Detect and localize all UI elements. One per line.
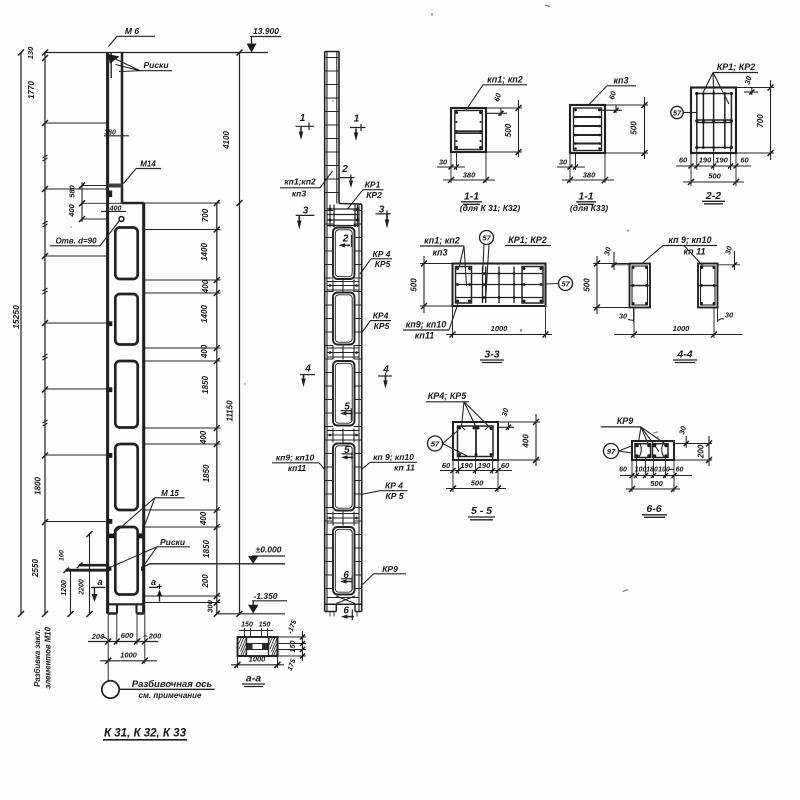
- scan specks: [70, 5, 659, 593]
- svg-text:1770: 1770: [27, 81, 36, 99]
- riska marks bottom: [108, 566, 145, 570]
- svg-text:190: 190: [699, 156, 712, 165]
- svg-text:57: 57: [482, 234, 491, 243]
- svg-text:-1.350: -1.350: [253, 591, 277, 601]
- svg-text:КР1; КР2: КР1; КР2: [508, 235, 547, 245]
- dim 1200: [61, 570, 74, 617]
- svg-text:кп 9; кп10: кп 9; кп10: [668, 235, 711, 245]
- embeds M15: [108, 533, 145, 538]
- base zone and notch: [325, 596, 362, 617]
- svg-text:КР 4: КР 4: [373, 249, 391, 259]
- svg-text:500: 500: [471, 479, 484, 488]
- svg-text:11150: 11150: [226, 400, 235, 422]
- svg-text:(для К 31; К32): (для К 31; К32): [460, 203, 521, 213]
- svg-text:400: 400: [199, 430, 208, 445]
- label kp9 kp10 kp11 left: [272, 453, 326, 474]
- dim 700 section 2-2: [736, 80, 774, 160]
- svg-text:±0.000: ±0.000: [256, 545, 282, 555]
- dim 400 console: [101, 205, 126, 212]
- section a-a outline: [238, 637, 278, 657]
- svg-text:1: 1: [354, 114, 360, 125]
- svg-text:500: 500: [410, 278, 419, 292]
- svg-text:60: 60: [679, 156, 688, 165]
- svg-text:500: 500: [504, 123, 513, 137]
- svg-text:см. примечание: см. примечание: [139, 691, 202, 700]
- web zone 3: [327, 429, 359, 443]
- svg-text:4: 4: [304, 364, 311, 375]
- svg-text:кп1;кп2: кп1;кп2: [284, 177, 316, 187]
- svg-text:380: 380: [463, 171, 476, 180]
- svg-text:400: 400: [201, 279, 210, 294]
- label kp9 kp10 kp11 for 4-4: [642, 235, 717, 266]
- svg-text:1850: 1850: [202, 464, 211, 482]
- svg-text:30: 30: [725, 311, 734, 320]
- svg-text:60: 60: [607, 89, 618, 100]
- svg-text:30: 30: [677, 424, 688, 435]
- base extension lines: [108, 614, 145, 682]
- label kp9 kp10 kp11 right: [361, 452, 417, 473]
- svg-text:кп9; кп10: кп9; кп10: [406, 320, 447, 330]
- dim 380 on shaft: [104, 130, 129, 137]
- svg-text:500: 500: [650, 479, 663, 488]
- section mark a left: [91, 577, 106, 602]
- svg-text:1: 1: [300, 113, 306, 124]
- svg-text:4100: 4100: [222, 131, 231, 150]
- title 6-6: [642, 503, 667, 517]
- svg-text:500: 500: [630, 121, 639, 135]
- svg-text:57: 57: [673, 109, 682, 118]
- svg-text:Разбивочная ось: Разбивочная ось: [132, 679, 213, 690]
- dim 200 section 6-6: [674, 436, 712, 466]
- svg-text:200: 200: [148, 632, 162, 641]
- shaft ladder rungs: [325, 58, 339, 193]
- opening O4: [115, 444, 137, 510]
- svg-text:97: 97: [607, 447, 616, 456]
- section mark 1 right: [350, 114, 366, 142]
- label Riski top: [113, 58, 173, 72]
- opening O1: [115, 228, 137, 280]
- dims 580 400 left of shaft: [67, 182, 122, 222]
- dim 500 section 4-4: [583, 256, 630, 314]
- svg-text:400: 400: [200, 344, 209, 359]
- label Riski bottom: [112, 537, 191, 567]
- svg-text:200: 200: [697, 444, 706, 459]
- svg-text:100: 100: [635, 467, 647, 474]
- svg-text:КР9: КР9: [617, 416, 634, 426]
- axis circle: [102, 681, 215, 698]
- section mark 5 lower: [341, 445, 353, 460]
- label KR1 KR2 for 2-2: [703, 62, 758, 104]
- svg-text:6: 6: [343, 605, 349, 616]
- section 6-6 outline: [632, 441, 674, 460]
- svg-text:1000: 1000: [249, 655, 267, 664]
- section 3-3 outline: [453, 264, 546, 307]
- dim 30 section 6-6: [674, 424, 712, 448]
- level mark 13.900: [247, 26, 282, 53]
- svg-text:500: 500: [708, 172, 721, 181]
- dims 30 380 section 1-1: [437, 152, 495, 183]
- dims 60 100 180 100 60 section 6-6: [619, 458, 692, 493]
- title 5-5: [468, 505, 495, 520]
- svg-text:КР4: КР4: [373, 311, 389, 321]
- section mark 4 right: [378, 365, 392, 389]
- poz circle 57 right for 3-3: [546, 277, 573, 291]
- axis note text: [132, 679, 213, 700]
- label M14: [124, 160, 162, 184]
- svg-text:13.900: 13.900: [253, 26, 279, 36]
- label KR9 for 6-6: [601, 416, 666, 452]
- label kp1 kp2 kp3 left: [280, 171, 333, 199]
- label KR1 KR2 for 3-3: [505, 235, 551, 246]
- svg-text:200: 200: [91, 632, 105, 641]
- svg-text:кп3: кп3: [292, 189, 307, 199]
- right chord stirrup ticks: [354, 211, 362, 589]
- svg-text:Риски: Риски: [160, 537, 186, 547]
- svg-text:М 15: М 15: [161, 489, 179, 498]
- poz circle 57 for 2-2: [671, 106, 697, 118]
- svg-text:кп1; кп2: кп1; кп2: [424, 236, 460, 246]
- svg-text:30: 30: [500, 406, 511, 417]
- storey level lines: [45, 123, 108, 522]
- svg-text:КР1: КР1: [365, 180, 381, 190]
- svg-text:190: 190: [715, 156, 728, 165]
- section 1-1 K31 K32 outline: [451, 108, 486, 152]
- svg-text:180: 180: [646, 467, 658, 474]
- svg-text:а: а: [151, 577, 156, 588]
- label KR4 KR5 second: [362, 311, 392, 334]
- dim 500 section 2-2: [683, 172, 744, 186]
- svg-text:190: 190: [460, 461, 473, 470]
- svg-text:К 31, К 32, К 33: К 31, К 32, К 33: [104, 728, 187, 740]
- svg-text:кп3: кп3: [432, 248, 447, 258]
- svg-text:4-4: 4-4: [676, 349, 692, 361]
- svg-text:60: 60: [492, 91, 503, 102]
- poz circle 57 top for 3-3: [480, 231, 494, 296]
- svg-text:М 6: М 6: [125, 26, 139, 36]
- svg-text:2550: 2550: [31, 559, 40, 578]
- svg-text:700: 700: [756, 114, 765, 128]
- dim 60 section 1-1: [486, 91, 507, 116]
- svg-text:30: 30: [559, 158, 568, 167]
- web zone 4: [327, 512, 359, 526]
- svg-text:130: 130: [26, 46, 35, 59]
- svg-text:1-1: 1-1: [578, 191, 593, 203]
- svg-text:Отв. d=90: Отв. d=90: [55, 237, 97, 246]
- title 1-1 dlya K33: [570, 191, 608, 214]
- svg-text:кп1; кп2: кп1; кп2: [487, 75, 523, 85]
- dim 500 section 3-3: [410, 256, 453, 313]
- svg-text:30: 30: [439, 158, 448, 167]
- label kp1 kp2 for 1-1: [466, 75, 527, 111]
- level line -1.350: [217, 591, 287, 614]
- poz circle 57 for 5-5: [428, 431, 469, 457]
- dim 400 section 5-5: [498, 414, 540, 466]
- hole Otv d90: [50, 217, 124, 246]
- svg-text:кп3: кп3: [613, 76, 628, 86]
- dim 30 section 5-5: [497, 406, 514, 430]
- dimension line 4100 11150: [222, 50, 243, 617]
- dim 1000 section a-a: [231, 655, 284, 669]
- svg-text:600: 600: [121, 631, 134, 640]
- opening O5: [115, 527, 137, 595]
- embed M14: [108, 184, 123, 198]
- svg-text:кп 9; кп10: кп 9; кп10: [373, 452, 414, 462]
- svg-text:3-3: 3-3: [484, 349, 499, 361]
- svg-text:КР4; КР5: КР4; КР5: [428, 391, 468, 401]
- svg-text:1000: 1000: [120, 651, 138, 660]
- svg-text:КР5: КР5: [375, 259, 391, 269]
- section 4-4 right cage: [698, 264, 718, 308]
- svg-text:КР9: КР9: [382, 564, 398, 574]
- svg-text:кп11: кп11: [415, 331, 434, 341]
- svg-text:300: 300: [206, 599, 215, 612]
- level line +-0.000: [144, 545, 285, 567]
- section mark 6 lower: [341, 605, 354, 620]
- section mark 1 left: [296, 113, 315, 140]
- svg-text:1000: 1000: [491, 324, 509, 333]
- svg-text:КР 5: КР 5: [386, 491, 404, 501]
- svg-text:200: 200: [201, 574, 210, 589]
- title 3-3: [480, 349, 504, 363]
- top datum line: [44, 52, 268, 54]
- svg-text:КР 4: КР 4: [385, 481, 403, 491]
- top dims 30 section 4-4: [602, 244, 740, 270]
- dim 500 section 1-1: [486, 100, 522, 157]
- svg-text:кп9; кп10: кп9; кп10: [276, 453, 315, 463]
- svg-text:а: а: [97, 577, 102, 588]
- reinforcement column shaft edges: [325, 52, 362, 612]
- svg-text:150: 150: [259, 622, 271, 629]
- svg-text:1200: 1200: [61, 580, 68, 596]
- web zone 1: [327, 280, 359, 293]
- svg-text:КР1; КР2: КР1; КР2: [717, 62, 756, 72]
- section 2-2 outline: [691, 88, 736, 154]
- svg-text:400: 400: [67, 203, 76, 217]
- web zone 2: [327, 346, 359, 360]
- svg-text:КР2: КР2: [366, 190, 382, 200]
- svg-text:(для К33): (для К33): [570, 203, 608, 213]
- dim 500 section 5-5: [446, 479, 506, 492]
- svg-text:700: 700: [201, 208, 210, 222]
- svg-text:150: 150: [241, 622, 253, 629]
- section 4-4 left cage: [630, 264, 651, 308]
- svg-text:-175: -175: [287, 619, 298, 635]
- section mark 4 left: [300, 364, 315, 388]
- svg-text:6-6: 6-6: [646, 503, 661, 515]
- svg-text:150: 150: [290, 641, 297, 653]
- section mark 2 upper: [340, 164, 355, 188]
- svg-text:500: 500: [583, 278, 592, 292]
- base dims 200 600 200: [88, 631, 162, 645]
- svg-text:Риски: Риски: [143, 60, 169, 70]
- section mark 2 inner: [339, 234, 352, 248]
- bottom dims 30 1000 section 4-4: [614, 308, 742, 339]
- section 5-5 outline: [453, 422, 498, 460]
- section mark a right: [149, 577, 162, 602]
- svg-text:1400: 1400: [200, 305, 209, 323]
- left chord stirrup ticks: [325, 211, 333, 589]
- section mark 3 right: [375, 205, 390, 229]
- svg-text:2: 2: [341, 164, 348, 175]
- svg-text:2200: 2200: [79, 579, 86, 596]
- svg-text:1000: 1000: [673, 324, 691, 333]
- svg-text:30: 30: [602, 245, 613, 256]
- svg-text:30: 30: [743, 74, 754, 85]
- svg-text:60: 60: [501, 461, 510, 470]
- svg-text:кп 11: кп 11: [394, 463, 415, 473]
- svg-text:100: 100: [59, 550, 66, 561]
- svg-text:Разбивка закл.: Разбивка закл.: [33, 629, 42, 687]
- svg-text:60: 60: [676, 467, 684, 474]
- svg-text:2: 2: [342, 234, 349, 245]
- poz circle 57 for 6-6: [604, 444, 633, 459]
- opening O2: [115, 294, 137, 345]
- svg-text:57: 57: [431, 440, 440, 449]
- svg-text:15250: 15250: [11, 305, 21, 329]
- note razbivka zakl elementov M10: [33, 626, 53, 688]
- title 4-4: [673, 349, 697, 363]
- svg-text:57: 57: [561, 280, 570, 289]
- svg-text:400: 400: [522, 434, 531, 449]
- section mark 6 upper: [340, 570, 352, 590]
- svg-text:190: 190: [478, 461, 491, 470]
- svg-text:60: 60: [740, 156, 749, 165]
- base dim 1000: [100, 651, 157, 664]
- opening O3: [115, 361, 137, 428]
- label M15: [114, 489, 185, 534]
- opening M2: [333, 293, 355, 345]
- title 2-2: [702, 190, 725, 204]
- label KR4 KR5 first: [360, 249, 392, 274]
- drawing title K31 K32 K33: [103, 728, 187, 740]
- svg-text:1800: 1800: [34, 477, 43, 495]
- title 1-1 dlya K31 K32: [460, 191, 521, 214]
- svg-text:380: 380: [583, 171, 596, 180]
- dim 60 section 1-1 K33: [601, 89, 622, 113]
- svg-text:1400: 1400: [200, 243, 209, 261]
- dims 150 150 section a-a: [239, 622, 273, 638]
- dim 500 section 6-6: [626, 479, 680, 492]
- label M6: [109, 26, 156, 47]
- svg-text:М14: М14: [140, 160, 156, 169]
- title a-a: [242, 673, 265, 687]
- label KR4 KR5 third: [361, 481, 408, 502]
- svg-text:кп11: кп11: [288, 463, 307, 473]
- column K31 outline: [108, 53, 144, 614]
- label KR9 lower: [363, 564, 406, 585]
- column head M6 embed: [108, 53, 120, 78]
- dim 2200: [79, 531, 93, 617]
- section 1-1 K33 outline: [570, 105, 605, 153]
- opening M5: [333, 527, 355, 595]
- floor slab lines left of column: [59, 550, 108, 573]
- svg-text:30: 30: [619, 312, 628, 321]
- label KR1 KR2: [348, 180, 384, 210]
- console head reinforcement grid: [327, 205, 359, 228]
- label kp9 kp10 kp11 for 3-3: [403, 304, 458, 341]
- svg-text:175: 175: [287, 658, 298, 671]
- svg-text:а-а: а-а: [246, 673, 261, 685]
- svg-text:1850: 1850: [201, 376, 210, 394]
- svg-text:1-1: 1-1: [464, 191, 479, 203]
- label KR4 KR5 for 5-5: [426, 391, 491, 428]
- dims 60 190 190 60 section 2-2: [676, 149, 751, 187]
- svg-text:элементов М10: элементов М10: [44, 626, 53, 688]
- dimension line 15250: [11, 50, 24, 618]
- dim 500 section 1-1 K33: [605, 97, 648, 159]
- extension lines to right dim line: [144, 203, 221, 603]
- dims 30 380 section 1-1 K33: [557, 153, 614, 183]
- svg-text:60: 60: [442, 461, 451, 470]
- svg-text:5 - 5: 5 - 5: [471, 505, 492, 517]
- opening M3: [333, 361, 355, 426]
- svg-text:400: 400: [199, 511, 208, 526]
- svg-text:60: 60: [619, 467, 627, 474]
- opening M4: [333, 444, 355, 511]
- dim 1000 section 3-3: [446, 306, 552, 338]
- svg-text:580: 580: [68, 184, 77, 197]
- opening M1: [333, 228, 355, 280]
- dims 175 150 175 section a-a: [278, 619, 307, 672]
- dimension line segments right: [199, 200, 220, 617]
- svg-text:1850: 1850: [202, 540, 211, 558]
- dim 30 section 2-2: [736, 74, 760, 95]
- svg-text:2-2: 2-2: [705, 190, 721, 202]
- dimension line storeys left: [26, 46, 48, 617]
- section mark 5 upper: [340, 401, 352, 420]
- storey embed plates: [108, 321, 113, 524]
- svg-text:КР5: КР5: [374, 321, 390, 331]
- label kp3 for 1-1 K33: [588, 76, 637, 107]
- section mark 3 left: [296, 206, 315, 230]
- svg-text:30: 30: [723, 244, 734, 255]
- dims 60 190 190 60 section 5-5: [440, 457, 512, 493]
- label kp1 kp2 kp3 for 3-3: [420, 236, 467, 287]
